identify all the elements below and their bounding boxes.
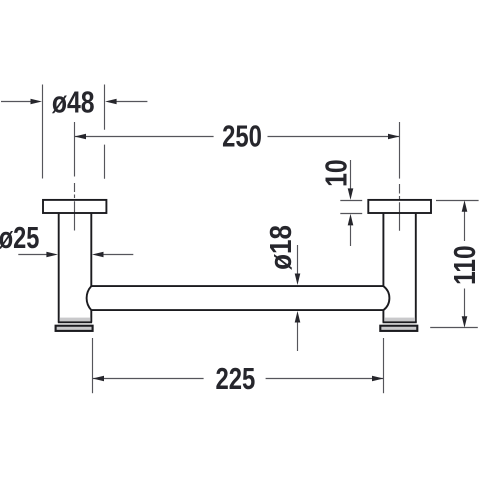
dimension 250 right arrowhead (388, 134, 400, 140)
right post (383, 214, 415, 323)
dimension 110 bottom arrowhead (462, 316, 468, 328)
dimension 10 extension line top (340, 200, 362, 202)
dimension 250 left arrowhead (75, 134, 87, 140)
dimension o25 label (0, 220, 39, 255)
centerline right post (399, 184, 401, 231)
dimension o48 extension line left (42, 85, 44, 179)
right collar mid line (383, 321, 417, 323)
dimension o48 right arrow (105, 99, 147, 105)
dimension 225 extension line left (92, 338, 94, 393)
left collar shadow band (60, 318, 91, 322)
dimension 225 label (215, 361, 255, 396)
left collar mid line (58, 321, 92, 323)
centerline left post (74, 183, 76, 231)
svg-text:ø18: ø18 (264, 225, 299, 270)
dimension 250 extension line right (399, 122, 401, 179)
dimension 225 line (93, 378, 384, 380)
left wall flange (43, 200, 106, 213)
dimension 10 extension line bottom (340, 213, 362, 215)
left collar base ring (56, 326, 93, 331)
right collar shadow band (384, 318, 415, 322)
svg-text:10: 10 (319, 159, 353, 187)
dimension o48 left arrow (1, 99, 42, 105)
svg-text:ø48: ø48 (52, 85, 95, 119)
dimension o25 left arrow (18, 252, 58, 258)
dimension 110 line (464, 211, 466, 317)
svg-text:250: 250 (222, 119, 262, 154)
dimension o18 bottom arrow (295, 311, 301, 351)
svg-text:ø25: ø25 (0, 220, 39, 255)
dimension 110 reference line top (436, 200, 479, 202)
dimension o18 label (264, 225, 299, 270)
dimension 250 extension line left (74, 122, 76, 177)
dimension 10 bottom arrow (348, 214, 354, 246)
dimension 250 line (75, 136, 400, 138)
right collar base ring (380, 326, 417, 331)
dimension 10 label (319, 159, 353, 187)
dimension 10 top arrow (348, 160, 354, 200)
svg-text:225: 225 (215, 361, 255, 396)
bar (87, 286, 390, 310)
svg-text:110: 110 (447, 245, 480, 284)
dimension 225 extension line right (383, 338, 385, 393)
dimension o48 label (52, 85, 95, 119)
dimension 110 label (447, 245, 480, 284)
dimension o18 top arrow (295, 245, 301, 285)
dimension o48 extension line right (104, 85, 106, 179)
dimension 110 reference line bottom (430, 327, 478, 329)
dimension 225 right arrowhead (372, 376, 384, 382)
left post (59, 214, 92, 323)
right wall flange (368, 200, 431, 213)
dimension 225 left arrowhead (93, 376, 105, 382)
dimension o25 right arrow (92, 252, 133, 258)
dimension 110 top arrowhead (462, 200, 468, 212)
dimension 250 label (222, 119, 262, 154)
